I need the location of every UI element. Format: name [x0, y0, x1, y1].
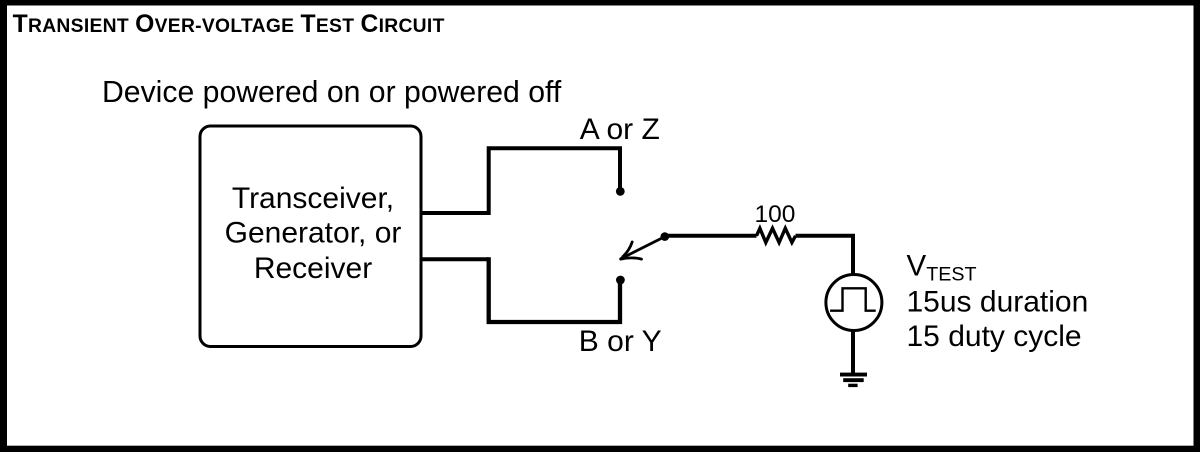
switch S1 arrowhead [623, 242, 632, 257]
switch S1 arrowhead lower barb [621, 258, 642, 259]
svg-text:Generator, or: Generator, or [225, 217, 402, 250]
svg-text:15us duration: 15us duration [907, 286, 1089, 319]
svg-text:TRANSIENT OVER-VOLTAGE TEST CI: TRANSIENT OVER-VOLTAGE TEST CIRCUIT [13, 11, 445, 38]
svg-text:15 duty cycle: 15 duty cycle [907, 320, 1082, 353]
svg-text:B or Y: B or Y [579, 325, 662, 358]
resistor R1 100 ohm zigzag [757, 228, 796, 242]
svg-text:Receiver: Receiver [254, 252, 372, 285]
pulse waveform symbol inside source [830, 288, 876, 310]
wire: B/Y branch (down, across, up to terminal) [489, 257, 620, 322]
wire: source to ground [851, 331, 855, 376]
svg-text:Transceiver,: Transceiver, [232, 182, 394, 215]
wire: switch pole to resistor [665, 234, 757, 238]
node: A/Z terminal dot [616, 187, 625, 196]
wire: resistor to pulse source [796, 236, 854, 276]
pulse source VTEST circle [826, 275, 882, 331]
device box U1: Transceiver / Generator / Receiver [200, 126, 421, 347]
svg-text:Device powered on or powered o: Device powered on or powered off [102, 76, 562, 109]
wire: bottom stub from device box [421, 257, 489, 261]
device box label [225, 182, 402, 285]
switch S1 pole junction dot [661, 232, 670, 241]
node: B/Y terminal dot [616, 276, 625, 285]
svg-text:100: 100 [755, 201, 796, 228]
svg-text:A or Z: A or Z [580, 113, 660, 146]
switch S1 arm [620, 237, 665, 259]
ground symbol [840, 373, 867, 388]
wire: A/Z branch (up, across, down to terminal) [489, 148, 620, 215]
wire: top stub from device box [421, 211, 489, 215]
